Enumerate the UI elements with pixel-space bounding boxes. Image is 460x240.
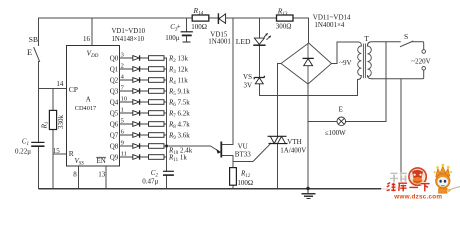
resistor R8 — [149, 122, 165, 127]
pushbutton SB blade — [34, 48, 40, 62]
svg-text:9: 9 — [121, 139, 124, 146]
wire triac column upper — [277, 96, 279, 137]
wire secondary bottom lead — [358, 76, 362, 96]
resistor R10 — [149, 144, 165, 149]
svg-text:CP: CP — [69, 85, 78, 94]
wire diode to R4 — [140, 79, 149, 81]
svg-text:Q2: Q2 — [110, 77, 119, 85]
svg-text:0.47μ: 0.47μ — [142, 178, 158, 186]
svg-text:100μ: 100μ — [165, 34, 180, 42]
wire diode to R2 — [140, 57, 149, 59]
svg-text:Q7: Q7 — [110, 132, 119, 140]
wire primary top lead — [367, 42, 400, 46]
wire Q9 stub — [120, 156, 133, 158]
terminal circles 220V — [422, 50, 426, 70]
ground symbol — [302, 189, 316, 199]
wire BT33 B1 lead — [222, 155, 233, 167]
diode VD7 — [133, 121, 140, 126]
wire 220V bottom terminal to primary bottom — [372, 70, 424, 79]
svg-text:Q0: Q0 — [110, 55, 119, 63]
svg-text:Q8: Q8 — [110, 143, 119, 151]
svg-text:CD4017: CD4017 — [75, 105, 96, 112]
lamp E — [337, 117, 346, 126]
svg-text:T: T — [364, 34, 369, 43]
transformer T windings — [358, 46, 372, 77]
wire pin8 — [78, 166, 80, 188]
wire R2 to bus — [164, 57, 167, 59]
resistor R6 — [149, 100, 165, 105]
svg-text:300Ω: 300Ω — [276, 22, 292, 30]
wire LED column — [258, 18, 260, 96]
capacitor C2 — [163, 171, 174, 175]
svg-text:SB: SB — [29, 35, 38, 44]
wire R6 to bus — [164, 101, 167, 103]
svg-text:1: 1 — [121, 106, 124, 113]
node dot emitter bus junction — [165, 145, 168, 148]
svg-text:~9V: ~9V — [339, 59, 351, 67]
wire lamp right to primary top tap — [346, 42, 386, 122]
wire R10 to bus — [164, 145, 167, 147]
resistor R1 — [49, 110, 56, 129]
wire Q3 stub — [120, 90, 133, 92]
wire pin13 — [105, 166, 107, 188]
svg-text:Q6: Q6 — [110, 121, 119, 129]
svg-text:E: E — [339, 106, 343, 114]
wire C2 to rail — [166, 175, 168, 188]
diode VD4 — [133, 88, 140, 93]
svg-text:VS: VS — [243, 73, 252, 81]
wire AC node horizontal — [259, 95, 357, 97]
node dot ground junction — [306, 187, 309, 190]
wire R5 to bus — [164, 90, 167, 92]
svg-text:~220V: ~220V — [411, 58, 430, 66]
watermark mascot — [434, 164, 460, 193]
watermark fade backdrop — [382, 172, 460, 202]
wire R7 to bus — [164, 112, 167, 114]
svg-text:VU: VU — [238, 143, 248, 151]
wire Q7 stub — [120, 134, 133, 136]
wire triac column lower — [277, 144, 279, 189]
bottom rail — [39, 188, 401, 190]
wire Q5 stub — [120, 112, 133, 114]
svg-text:+: + — [177, 22, 181, 31]
svg-text:EN: EN — [97, 157, 106, 165]
wire Q0 stub — [120, 57, 133, 59]
wire primary bottom corner — [367, 76, 372, 79]
svg-text:1N4148×10: 1N4148×10 — [112, 36, 145, 43]
wire R12 to rail — [232, 185, 234, 188]
svg-text:Q3: Q3 — [110, 88, 119, 96]
wire B2 column — [232, 18, 234, 144]
diode VD1 — [133, 55, 140, 60]
watermark — [381, 164, 460, 202]
diode VD2 — [133, 66, 140, 71]
wire diode to R9 — [140, 134, 149, 136]
diode VD10 — [133, 154, 140, 159]
svg-text:16: 16 — [83, 35, 91, 43]
wire BT33 emitter from bus — [167, 146, 221, 152]
wire VD15 to R13 — [226, 17, 277, 19]
wire secondary top corner to bridge right — [332, 63, 338, 65]
svg-text:www.dzsc.com: www.dzsc.com — [393, 194, 442, 201]
resistor R4 — [149, 78, 165, 83]
wire SB lower lead to CP node — [38, 62, 40, 89]
wire R1 column lower + pin15 stub — [53, 130, 67, 189]
resistor R2 — [149, 56, 165, 61]
svg-text:100Ω: 100Ω — [191, 23, 207, 31]
wire C3 stem — [185, 18, 187, 42]
wire R3 to bus — [164, 68, 167, 70]
transformer core — [363, 44, 365, 79]
capacitor C3 — [181, 32, 193, 42]
svg-text:S: S — [404, 32, 408, 41]
wire R1 column upper — [52, 88, 54, 110]
diode VD6 — [133, 110, 140, 115]
svg-text:1A/400V: 1A/400V — [280, 147, 306, 155]
wire resistor bus — [166, 58, 168, 171]
wire bridge bottom column to rail — [307, 84, 309, 189]
wire BT33 B2 lead — [222, 143, 233, 145]
resistor R13 — [277, 15, 294, 21]
wire diode to R8 — [140, 123, 149, 125]
resistor R12 — [230, 168, 237, 186]
svg-text:VTH: VTH — [287, 138, 301, 146]
wire secondary top lead — [337, 42, 361, 64]
svg-text:10: 10 — [121, 95, 128, 102]
wire triac gate — [233, 144, 270, 161]
wire top rail — [39, 17, 309, 19]
wire diode to R11 — [140, 156, 149, 158]
svg-text:13: 13 — [98, 171, 106, 179]
svg-text:14: 14 — [56, 80, 64, 88]
wire right drop column — [400, 79, 402, 189]
diode VD8 — [133, 132, 140, 137]
switch S blade — [400, 41, 412, 46]
svg-text:BT33: BT33 — [235, 151, 251, 159]
wire R13 to bridge top — [293, 18, 309, 43]
svg-text:11: 11 — [121, 150, 127, 157]
svg-text:Q4: Q4 — [110, 99, 119, 107]
resistor R5 — [149, 89, 165, 94]
resistor R9 — [149, 133, 165, 138]
diode VD9 — [133, 143, 140, 148]
wire Q2 stub — [120, 79, 133, 81]
svg-text:Q5: Q5 — [110, 110, 119, 118]
svg-text:1N4001×4: 1N4001×4 — [314, 21, 345, 29]
wire Q6 stub — [120, 123, 133, 125]
capacitor C1 — [31, 142, 44, 146]
svg-text:330k: 330k — [57, 115, 65, 130]
svg-text:100Ω: 100Ω — [237, 179, 253, 187]
resistor R3 — [149, 67, 165, 72]
diode VD15 — [218, 13, 225, 24]
wire lamp left — [308, 120, 337, 122]
svg-text:E: E — [27, 47, 32, 57]
watermark faint gray text — [390, 173, 407, 183]
wire C1 column — [38, 88, 40, 188]
wire switch to 220V top terminal — [413, 42, 424, 50]
wire diode to R10 — [140, 145, 149, 147]
watermark text weiku yixia — [387, 183, 430, 192]
wire R9 to bus — [164, 134, 167, 136]
svg-text:LED: LED — [236, 37, 251, 46]
wire SB upper lead — [38, 18, 40, 46]
triac VTH — [268, 136, 288, 143]
wire diode to R5 — [140, 90, 149, 92]
wire diode to R6 — [140, 101, 149, 103]
diode VD3 — [133, 77, 140, 82]
wire pin16 — [91, 18, 93, 45]
resistor R14 — [192, 15, 209, 21]
bridge rectifier VD11-VD14 diamond — [281, 43, 332, 84]
IC U1 CD4017 body — [67, 45, 120, 166]
transistor VU BT33 — [216, 142, 221, 158]
output rows: Q labels, pin numbers, diodes VD1-VD10, resistors R2-R11 — [110, 51, 193, 163]
svg-text:Q1: Q1 — [110, 66, 119, 74]
svg-text:2: 2 — [121, 62, 124, 69]
svg-text:Q9: Q9 — [110, 154, 119, 162]
svg-text:≤100W: ≤100W — [325, 129, 346, 137]
svg-text:A: A — [86, 96, 91, 104]
wire CP node to pin 14 — [39, 87, 67, 89]
svg-text:5: 5 — [121, 117, 124, 124]
wire R11 to bus — [164, 156, 167, 158]
wire R8 to bus — [164, 123, 167, 125]
watermark red badge logo — [409, 168, 426, 185]
resistor R7 — [149, 111, 165, 116]
wire Q4 stub — [120, 101, 133, 103]
wire Q1 stub — [120, 68, 133, 70]
svg-text:R: R — [69, 149, 74, 158]
svg-text:3V: 3V — [243, 82, 252, 90]
resistor R11 — [149, 155, 165, 160]
svg-text:1N4001: 1N4001 — [208, 37, 231, 45]
svg-text:8: 8 — [73, 171, 77, 179]
svg-text:0.22μ: 0.22μ — [15, 148, 31, 156]
wire R4 to bus — [164, 79, 167, 81]
zener VS — [254, 76, 264, 84]
wire R14 to VD15 — [209, 17, 219, 19]
svg-text:3: 3 — [121, 51, 124, 58]
LED — [253, 33, 270, 45]
svg-text:VD1~VD10: VD1~VD10 — [112, 28, 146, 35]
svg-text:15: 15 — [53, 147, 61, 155]
wire diode to R7 — [140, 112, 149, 114]
wire diode to R3 — [140, 68, 149, 70]
wire Q8 stub — [120, 145, 133, 147]
diode VD5 — [133, 99, 140, 104]
bridge inner diode — [303, 58, 314, 65]
wire bridge left corner leg — [278, 64, 282, 96]
